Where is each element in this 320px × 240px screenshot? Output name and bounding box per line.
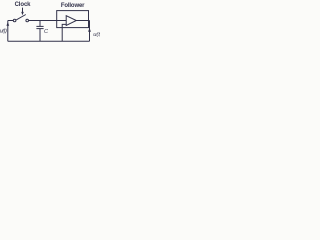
svg-text:u(t): u(t) [0,29,7,35]
svg-text:Follower: Follower [61,3,85,9]
svg-text:C: C [44,29,49,35]
svg-text:Clock: Clock [15,2,32,8]
svg-text:u(t): u(t) [93,32,100,38]
